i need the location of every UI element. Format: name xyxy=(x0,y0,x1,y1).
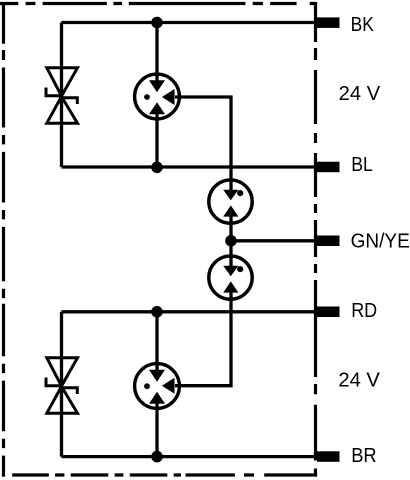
wire BK line xyxy=(62,21,321,24)
wire GN/YE line xyxy=(231,239,320,242)
gas discharge tube F4 (3-electrode, bottom left) xyxy=(135,363,181,411)
svg-text:BL: BL xyxy=(351,154,373,176)
junction node on BL line xyxy=(151,162,163,174)
junction node on RD line xyxy=(151,306,163,318)
svg-text:24 V: 24 V xyxy=(338,370,380,392)
svg-text:BR: BR xyxy=(351,445,376,467)
junction node GN/YE xyxy=(225,235,237,247)
enclosure border top (dash-dot) xyxy=(0,2,317,5)
terminal RD xyxy=(317,307,340,318)
terminal BK xyxy=(317,17,340,28)
svg-text:RD: RD xyxy=(351,300,377,322)
terminal BR xyxy=(317,451,340,462)
enclosure border left (dash-dot) xyxy=(2,2,5,477)
TVS suppressor diode V1 (top left, bidirectional) xyxy=(46,68,78,123)
wire right chain (F1 right electrode down through F2, F3 to F4 right electrode) xyxy=(180,97,231,386)
wire mid rail upper (BK to F1 to BL) xyxy=(155,23,158,168)
wire left rail lower (through TVS V2) xyxy=(60,312,63,457)
gas discharge tube F2 (2-electrode, middle upper) xyxy=(209,180,252,224)
TVS suppressor diode V2 (bottom left, bidirectional) xyxy=(46,358,78,413)
svg-text:GN/YE: GN/YE xyxy=(351,230,410,252)
junction node on BR line xyxy=(151,451,163,463)
junction node on BK line xyxy=(151,17,163,29)
svg-text:24 V: 24 V xyxy=(339,83,381,105)
wire BR line xyxy=(62,455,321,458)
enclosure border bottom (dash-dot) xyxy=(2,473,317,476)
gas discharge tube F1 (3-electrode, top left) xyxy=(135,73,181,121)
wire RD line xyxy=(62,310,321,313)
wire left rail upper (through TVS V1) xyxy=(60,23,63,168)
terminal GN/YE xyxy=(317,236,340,247)
wire BL line xyxy=(62,165,321,168)
wire mid rail lower (RD to F4 to BR) xyxy=(155,312,158,457)
svg-text:BK: BK xyxy=(351,14,375,36)
enclosure border right (dash-dot) xyxy=(314,2,317,477)
gas discharge tube F3 (2-electrode, middle lower) xyxy=(209,256,252,300)
terminal BL xyxy=(317,162,340,173)
